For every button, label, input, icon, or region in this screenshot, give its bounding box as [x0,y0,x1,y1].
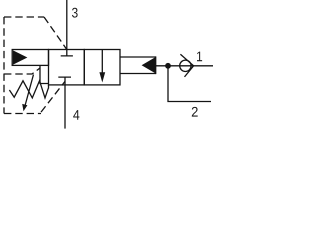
poppet box top line [120,56,156,58]
port 3 label [72,8,78,18]
check valve seat [180,54,193,77]
wire: port 3 line [66,0,68,50]
wire: port 2 branch [168,66,211,102]
valve V1 right position square [84,50,120,85]
dashed pilot line to port 3 [44,17,67,50]
check valve ball (circle) [180,60,191,71]
dashed drain line to port 4 [41,82,65,113]
junction node (dot) [165,63,171,69]
solenoid triangle (filled) [13,50,28,65]
dashed enclosure bottom edge [4,113,41,115]
adjustable spring zigzag [9,81,48,98]
flow path arrow in right square (stem) [101,50,103,75]
wire: port 4 line [64,85,66,129]
valve left edge extension (spring anchor) [48,85,50,89]
spring adjustment arrow (shaft) [25,75,34,107]
poppet box right edge [155,56,157,74]
poppet triangle (filled, pointing left) [142,57,156,74]
poppet box bottom line [120,73,156,75]
spring plunger line below solenoid [40,65,49,83]
blocked port symbol bottom (port 4, T) [58,77,71,85]
port 1 label [197,52,202,62]
wire: output line to port 1 [156,65,213,67]
dashed enclosure left edge [3,17,5,114]
port 4 label [73,110,79,120]
valve V1 left position square [49,50,85,85]
flow path arrow head [99,72,105,82]
dashed middle pilot line [4,68,40,74]
solenoid actuator box [12,50,48,66]
blocked port symbol top (port 3, T) [61,50,73,56]
spring adjustment arrow head [22,104,27,111]
port 2 label [192,107,198,117]
dashed enclosure top edge [4,16,44,18]
